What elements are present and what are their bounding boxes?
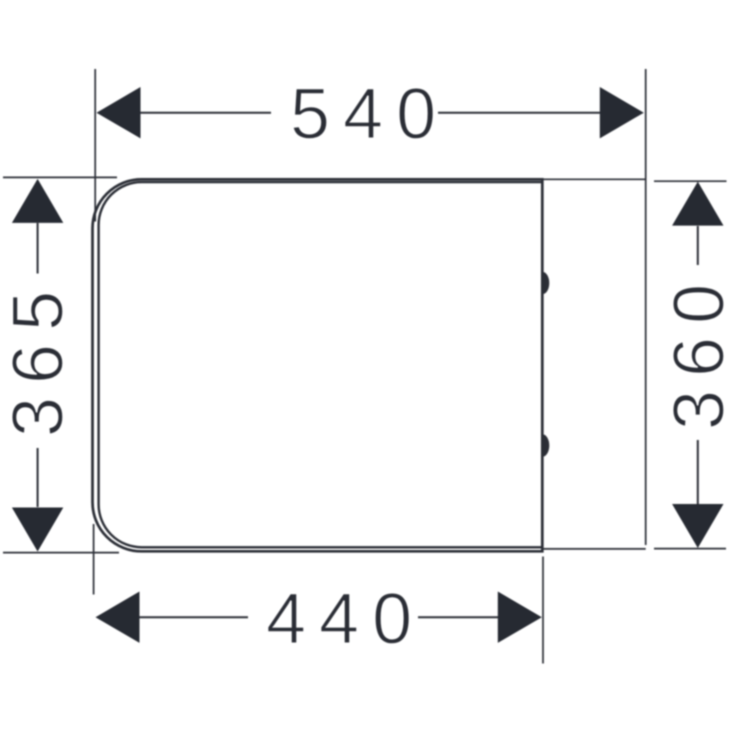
svg-text:540: 540 <box>290 75 449 155</box>
svg-text:365: 365 <box>0 278 79 437</box>
svg-text:360: 360 <box>660 271 735 430</box>
svg-text:440: 440 <box>266 580 425 660</box>
